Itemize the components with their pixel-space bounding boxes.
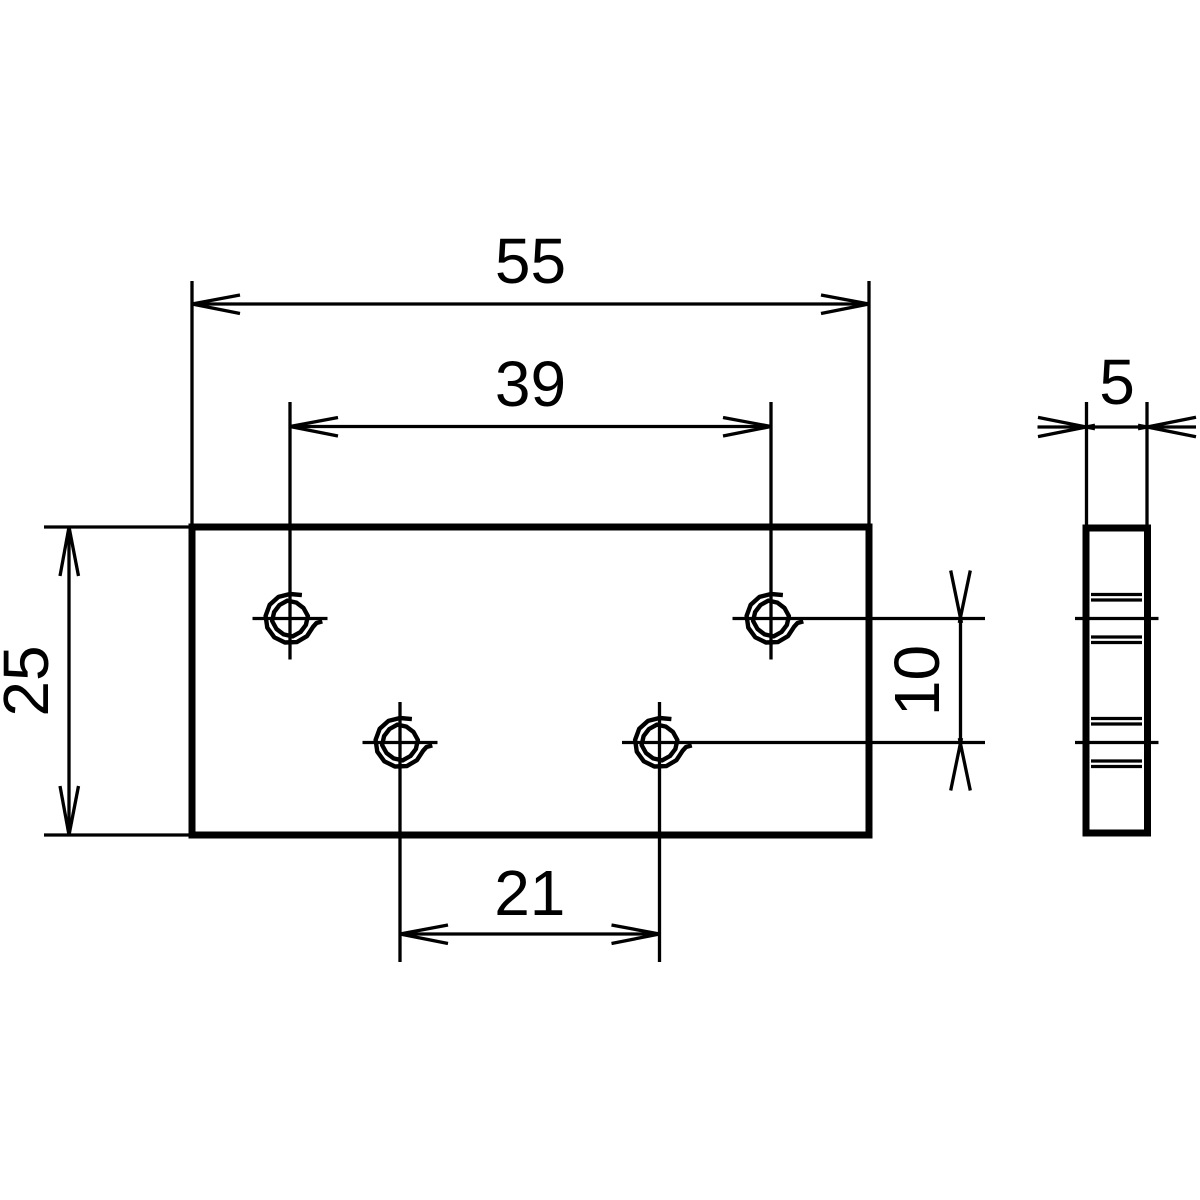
side view top hole bore line upper [1091,598,1142,601]
side view hole bottom centerline [1075,741,1159,744]
dimension 21 line [400,932,660,935]
dimension 21 left arrowhead [400,925,448,944]
side view bottom hole bore line lower [1091,759,1142,762]
dimension 39 right arrowhead [723,418,771,437]
dimension 55 right extension line [867,281,870,524]
svg-text:39: 39 [495,348,566,420]
dimension 21 left extension / hole BL vertical centerline [398,702,401,962]
side view top hole bore line lower [1091,635,1142,638]
side view plate outline [1086,528,1148,833]
dimension 55 value label [495,225,566,297]
svg-text:10: 10 [881,645,953,716]
side view bottom hole thread line lower [1091,765,1142,768]
dimension 10 top extension / hole TR horizontal centerline [733,617,986,620]
threaded hole TR inner circle [753,601,789,637]
dimension 55 line [192,302,869,305]
dimension 25 bottom extension line [44,833,189,836]
threaded hole BR inner circle [642,725,678,761]
dimension 39 left arrowhead [290,418,338,437]
dimension 21 right extension / hole BR vertical centerline [658,702,661,962]
dimension 25 line [67,527,70,835]
svg-text:25: 25 [0,645,62,716]
dimension 25 top arrowhead [60,527,79,576]
hole TL horizontal centerline [253,617,328,620]
side view bottom hole bore line upper [1091,722,1142,725]
dimension 5 right arrowhead [1138,417,1196,436]
dimension 5 line [1038,425,1197,428]
dimension 10 top arrowhead [951,571,971,624]
svg-text:5: 5 [1099,346,1135,418]
dimension 21 value label [494,857,565,929]
dimension 25 bottom arrowhead [60,786,79,835]
threaded hole TL thread arc [266,594,323,643]
dimension 5 left extension line [1085,402,1088,525]
dimension 5 left arrowhead [1038,417,1095,436]
front view plate outline [192,527,869,835]
dimension 55 right arrowhead [821,295,869,314]
dimension 25 top extension line [44,525,189,528]
side view bottom hole thread line upper [1091,717,1142,720]
dimension 39 left extension / hole TL vertical centerline [288,402,291,660]
dimension 39 right extension / hole TR vertical centerline [769,402,772,660]
side view hole top centerline [1075,617,1159,620]
dimension 10 bottom extension / hole BR horizontal centerline [622,741,985,744]
dimension 10 line [959,618,962,744]
dimension 10 value label [881,645,953,716]
dimension 25 value label [0,645,62,716]
threaded hole BR thread arc [635,718,692,767]
threaded hole TL inner circle [272,601,308,637]
side view top hole thread line lower [1091,641,1142,644]
side view top hole thread line upper [1091,593,1142,596]
dimension 5 value label [1099,346,1135,418]
dimension 21 right arrowhead [612,925,660,944]
svg-text:55: 55 [495,225,566,297]
dimension 55 left extension line [190,281,193,524]
threaded hole TR thread arc [747,594,804,643]
dimension 10 bottom arrowhead [951,738,971,791]
threaded hole BL thread arc [376,718,433,767]
dimension 5 right extension line [1145,402,1148,525]
threaded hole BL inner circle [382,725,418,761]
dimension 39 value label [495,348,566,420]
hole BL horizontal centerline [363,741,438,744]
dimension 55 left arrowhead [192,295,240,314]
dimension 39 line [290,425,771,428]
svg-text:21: 21 [494,857,565,929]
